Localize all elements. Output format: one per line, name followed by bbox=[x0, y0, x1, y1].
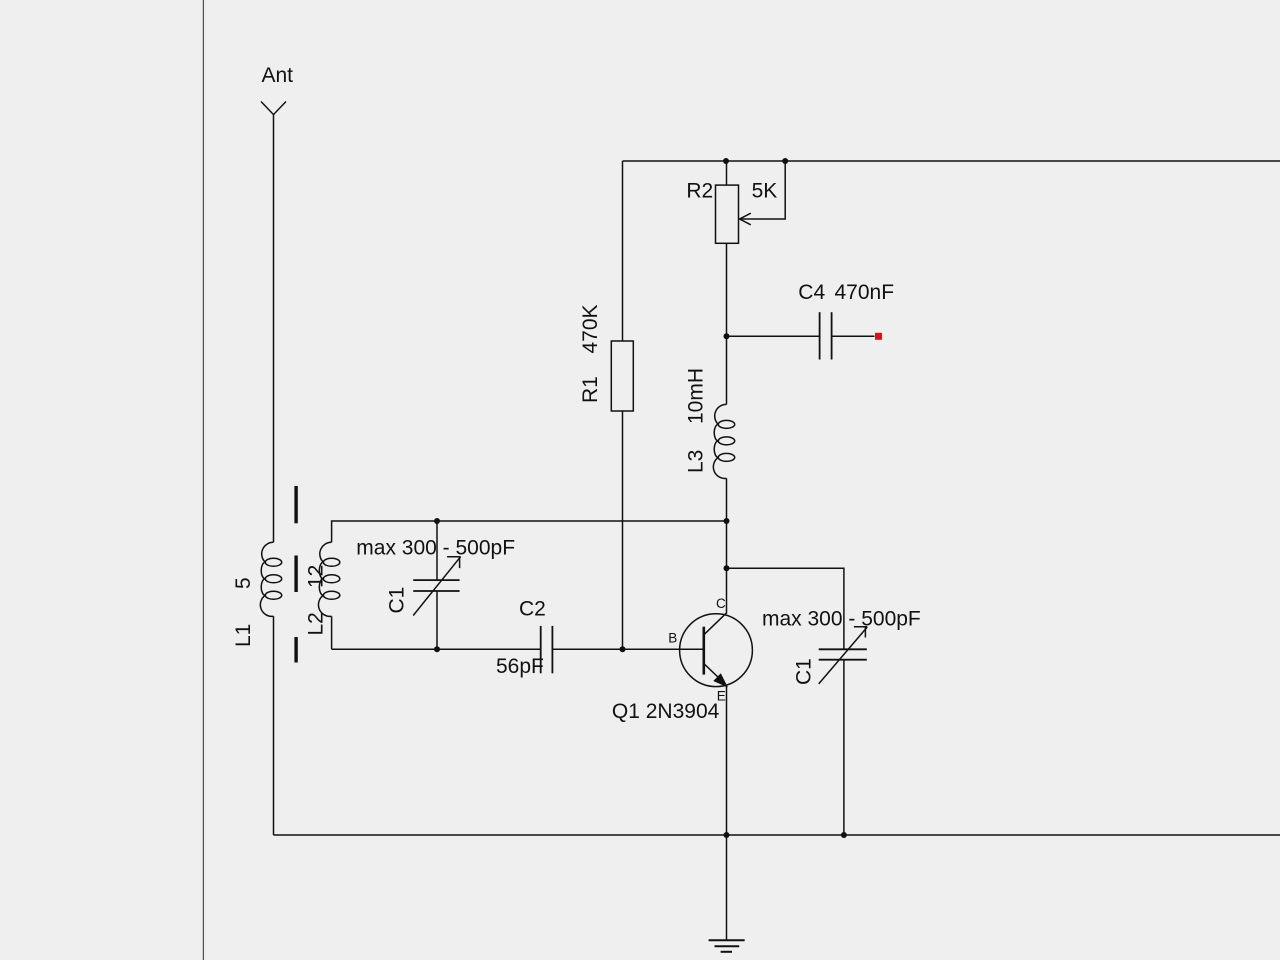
svg-text:C1: C1 bbox=[386, 587, 409, 614]
svg-text:max 300 - 500pF: max 300 - 500pF bbox=[762, 608, 921, 631]
svg-text:10mH: 10mH bbox=[685, 368, 708, 424]
svg-text:470nF: 470nF bbox=[835, 281, 895, 304]
svg-text:L3: L3 bbox=[685, 450, 708, 473]
svg-text:L1: L1 bbox=[232, 624, 255, 647]
svg-text:B: B bbox=[668, 630, 677, 645]
svg-text:12: 12 bbox=[305, 565, 328, 588]
svg-text:R2: R2 bbox=[686, 180, 713, 203]
svg-text:5K: 5K bbox=[752, 180, 778, 203]
svg-text:56pF: 56pF bbox=[496, 655, 544, 678]
svg-text:max 300 - 500pF: max 300 - 500pF bbox=[356, 537, 515, 560]
svg-text:C2: C2 bbox=[519, 598, 546, 621]
svg-text:5: 5 bbox=[232, 577, 255, 589]
svg-text:470K: 470K bbox=[579, 304, 602, 353]
svg-text:Q1 2N3904: Q1 2N3904 bbox=[612, 700, 720, 723]
svg-text:C1: C1 bbox=[793, 658, 816, 685]
svg-text:C4: C4 bbox=[798, 281, 825, 304]
svg-text:L2: L2 bbox=[305, 612, 328, 635]
svg-text:Ant: Ant bbox=[262, 64, 294, 87]
svg-text:E: E bbox=[717, 689, 726, 704]
svg-text:C: C bbox=[716, 596, 726, 611]
svg-text:R1: R1 bbox=[579, 376, 602, 403]
